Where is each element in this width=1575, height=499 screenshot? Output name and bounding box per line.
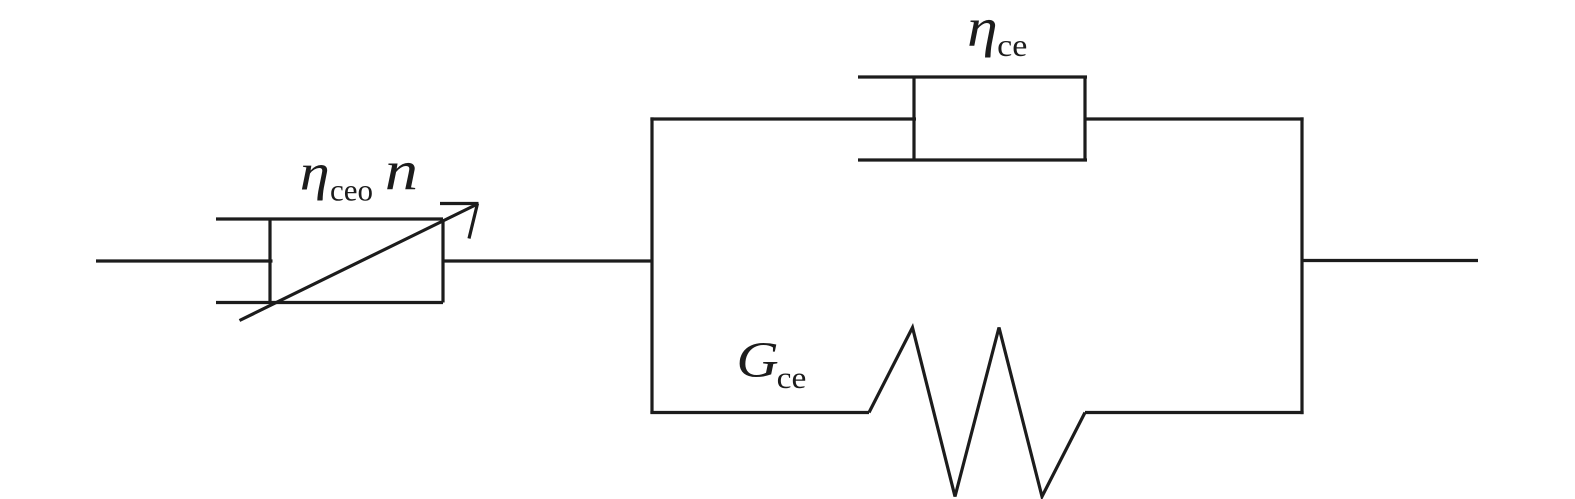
nonlinear damper cylinder right wall <box>441 219 444 303</box>
wire: bottom branch right segment <box>1085 411 1304 414</box>
dashpot piston plate <box>912 77 915 160</box>
spring zigzag <box>869 328 1085 497</box>
svg-text:η: η <box>300 144 330 201</box>
wire: top branch left segment <box>650 117 916 120</box>
wire: right vertical branch bus <box>1300 117 1303 414</box>
arrowhead lower barb <box>469 204 478 239</box>
wire: right output lead <box>1302 259 1478 262</box>
svg-text:ce: ce <box>777 360 807 395</box>
nonlinear damper (variable dashpot) cylinder top wall <box>216 217 443 220</box>
nonlinear damper cylinder bottom wall <box>216 301 443 304</box>
wire: bottom branch left segment <box>650 411 869 414</box>
wire: top branch right segment <box>1085 117 1304 120</box>
wire: damper output to junction <box>443 259 652 262</box>
wire: left input lead <box>96 259 273 262</box>
dashpot cylinder top wall <box>858 75 1087 78</box>
arrowhead horizontal barb <box>440 202 479 205</box>
svg-text:ceo: ceo <box>330 173 373 208</box>
dashpot cylinder bottom wall <box>858 158 1087 161</box>
nonlinear damper piston plate <box>268 219 271 303</box>
nonlinear damper variability arrow shaft <box>240 204 478 321</box>
svg-text:η: η <box>967 0 998 58</box>
svg-text:ce: ce <box>997 29 1027 64</box>
wire: left vertical branch bus <box>650 117 653 413</box>
dashpot cylinder right wall <box>1083 77 1086 160</box>
svg-text:n: n <box>385 140 418 202</box>
svg-text:G: G <box>736 332 778 389</box>
